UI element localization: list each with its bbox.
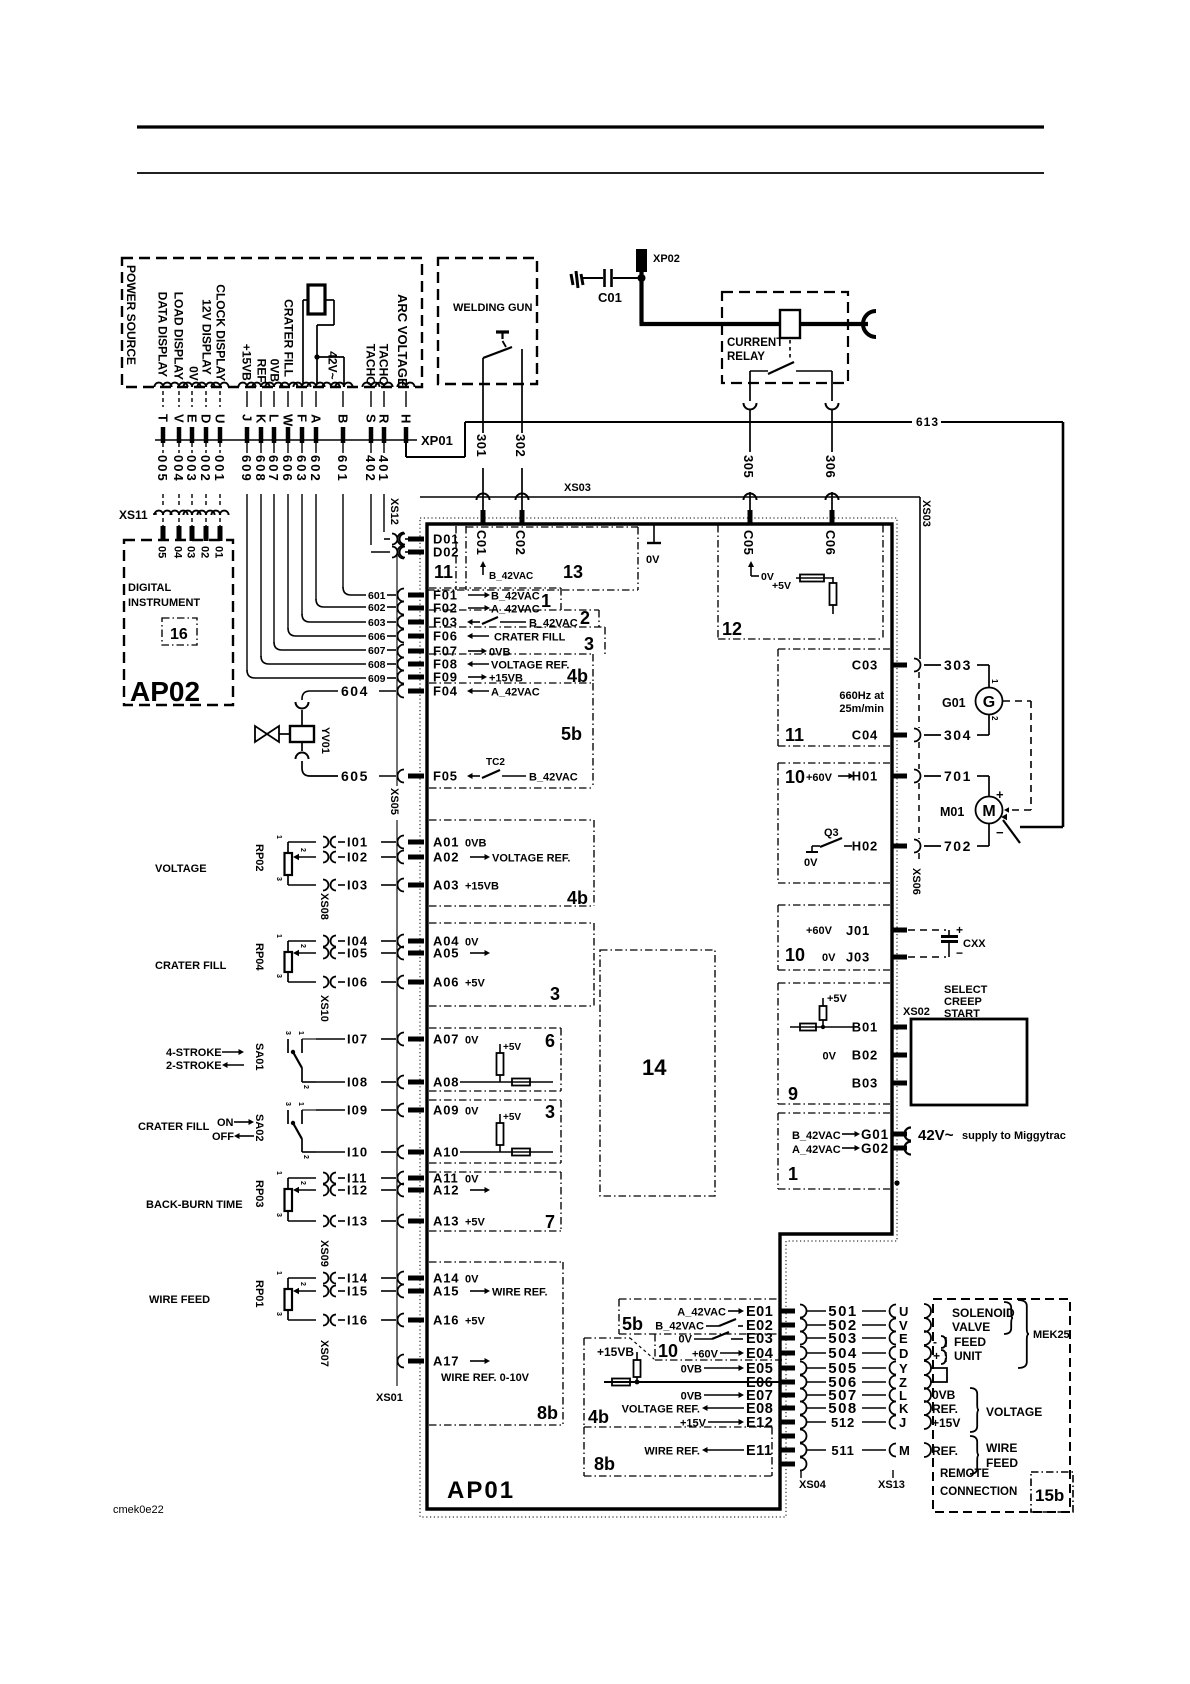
svg-text:609: 609	[368, 673, 386, 685]
svg-text:SA02: SA02	[253, 1114, 265, 1142]
svg-text:1: 1	[275, 1171, 282, 1175]
svg-text:S: S	[364, 414, 379, 423]
svg-text:CREEP: CREEP	[944, 996, 982, 1008]
svg-text:A10: A10	[433, 1145, 459, 1160]
svg-text:1: 1	[275, 1271, 282, 1275]
svg-text:301: 301	[474, 434, 489, 457]
svg-text:I05: I05	[347, 946, 368, 961]
svg-text:RP02: RP02	[253, 844, 265, 872]
svg-text:F06: F06	[433, 629, 458, 644]
svg-text:XP01: XP01	[421, 433, 453, 448]
svg-text:XS03: XS03	[920, 500, 932, 527]
svg-text:2-STROKE: 2-STROKE	[166, 1060, 222, 1072]
svg-text:VOLTAGE: VOLTAGE	[155, 863, 207, 875]
svg-text:G01: G01	[861, 1127, 889, 1142]
svg-text:A_42VAC: A_42VAC	[677, 1307, 726, 1319]
svg-text:B_42VAC: B_42VAC	[655, 1321, 704, 1333]
svg-text:A13: A13	[433, 1214, 459, 1229]
svg-text:A05: A05	[433, 946, 459, 961]
svg-text:E12: E12	[746, 1415, 773, 1431]
svg-text:0VB: 0VB	[681, 1364, 702, 1376]
svg-text:I03: I03	[347, 878, 368, 893]
svg-text:3: 3	[275, 877, 282, 881]
svg-text:3: 3	[284, 1031, 291, 1035]
svg-text:A15: A15	[433, 1284, 459, 1299]
svg-text:25m/min: 25m/min	[839, 703, 884, 715]
svg-text:POWER SOURCE: POWER SOURCE	[124, 265, 138, 365]
svg-text:AP02: AP02	[130, 676, 200, 707]
svg-text:D: D	[199, 414, 214, 423]
svg-text:10: 10	[785, 767, 805, 787]
svg-text:C05: C05	[741, 530, 756, 555]
svg-text:CXX: CXX	[963, 938, 986, 950]
svg-text:E: E	[899, 1331, 908, 1346]
svg-text:+5V: +5V	[772, 580, 791, 592]
svg-text:XS06: XS06	[910, 868, 922, 895]
svg-text:+15VB: +15VB	[465, 881, 499, 893]
svg-text:XS13: XS13	[878, 1479, 905, 1491]
svg-text:0V: 0V	[822, 952, 836, 964]
svg-text:A09: A09	[433, 1103, 459, 1118]
svg-text:701: 701	[944, 768, 972, 784]
svg-text:0VB: 0VB	[681, 1391, 702, 1403]
svg-text:+15VB: +15VB	[240, 344, 254, 381]
svg-text:VOLTAGE REF.: VOLTAGE REF.	[491, 660, 569, 672]
svg-text:0V: 0V	[187, 366, 201, 381]
svg-text:XS02: XS02	[903, 1006, 930, 1018]
svg-text:15b: 15b	[1035, 1486, 1064, 1505]
svg-text:1: 1	[788, 1164, 798, 1184]
svg-text:4b: 4b	[588, 1407, 609, 1427]
svg-text:WIRE FEED: WIRE FEED	[149, 1294, 210, 1306]
svg-text:004: 004	[171, 455, 186, 483]
svg-text:12V DISPLAY: 12V DISPLAY	[200, 299, 214, 375]
svg-text:3: 3	[584, 634, 594, 654]
svg-text:+5V: +5V	[465, 978, 486, 990]
svg-text:supply to Miggytrac: supply to Miggytrac	[962, 1130, 1066, 1142]
svg-text:A08: A08	[433, 1075, 459, 1090]
svg-text:XS03: XS03	[564, 482, 591, 494]
svg-text:F09: F09	[433, 670, 458, 685]
svg-text:0V: 0V	[465, 937, 479, 949]
svg-text:I15: I15	[347, 1284, 368, 1299]
svg-text:M: M	[899, 1443, 910, 1458]
svg-text:0VB: 0VB	[268, 359, 282, 383]
svg-text:10: 10	[658, 1341, 678, 1361]
svg-text:0V: 0V	[465, 1174, 479, 1186]
svg-text:AP01: AP01	[447, 1477, 515, 1504]
svg-text:UNIT: UNIT	[954, 1349, 983, 1363]
svg-text:0V: 0V	[646, 554, 660, 566]
svg-text:0VB: 0VB	[465, 838, 486, 850]
svg-text:R: R	[377, 414, 392, 424]
svg-text:YV01: YV01	[319, 727, 331, 754]
svg-text:8b: 8b	[594, 1454, 615, 1474]
svg-text:A16: A16	[433, 1313, 459, 1328]
svg-text:CONNECTION: CONNECTION	[940, 1486, 1017, 1498]
svg-text:D02: D02	[433, 545, 459, 560]
svg-text:511: 511	[831, 1443, 854, 1458]
svg-text:1: 1	[275, 835, 282, 839]
svg-text:FEED: FEED	[986, 1456, 1018, 1470]
svg-text:G02: G02	[861, 1141, 889, 1156]
svg-text:I01: I01	[347, 835, 368, 850]
svg-text:03: 03	[185, 546, 197, 558]
svg-text:A02: A02	[433, 850, 459, 865]
svg-text:+: +	[956, 923, 963, 937]
svg-text:−: −	[996, 825, 1004, 840]
svg-text:M01: M01	[940, 805, 964, 819]
svg-text:F: F	[295, 414, 310, 422]
svg-text:1: 1	[541, 591, 551, 611]
svg-text:+5V: +5V	[465, 1217, 486, 1229]
svg-text:4-STROKE: 4-STROKE	[166, 1047, 222, 1059]
svg-text:I02: I02	[347, 850, 368, 865]
svg-text:J03: J03	[846, 950, 870, 965]
svg-text:0V: 0V	[679, 1334, 693, 1346]
svg-text:2: 2	[299, 944, 306, 948]
svg-text:B_42VAC: B_42VAC	[491, 591, 540, 603]
svg-text:601: 601	[368, 590, 386, 602]
svg-text:WELDING GUN: WELDING GUN	[453, 302, 532, 314]
svg-text:A_42VAC: A_42VAC	[792, 1144, 841, 1156]
svg-text:10: 10	[785, 945, 805, 965]
svg-text:F05: F05	[433, 769, 458, 784]
svg-text:9: 9	[788, 1084, 798, 1104]
svg-text:A07: A07	[433, 1032, 459, 1047]
svg-text:607: 607	[266, 455, 281, 483]
svg-text:WIRE: WIRE	[986, 1441, 1017, 1455]
svg-text:XS11: XS11	[119, 508, 148, 522]
svg-text:H02: H02	[852, 839, 878, 854]
svg-text:603: 603	[294, 455, 309, 483]
svg-text:REF: REF	[255, 359, 269, 383]
svg-text:2: 2	[580, 608, 590, 628]
svg-text:A03: A03	[433, 878, 459, 893]
svg-text:VOLTAGE REF.: VOLTAGE REF.	[622, 1404, 700, 1416]
svg-text:MEK25: MEK25	[1033, 1329, 1070, 1341]
svg-text:I07: I07	[347, 1032, 368, 1047]
svg-text:607: 607	[368, 645, 386, 657]
svg-text:W: W	[281, 414, 296, 427]
svg-text:1: 1	[297, 1031, 304, 1035]
svg-text:3: 3	[275, 1213, 282, 1217]
svg-text:H01: H01	[852, 769, 878, 784]
svg-text:I12: I12	[347, 1183, 368, 1198]
svg-text:B_42VAC: B_42VAC	[489, 571, 533, 582]
svg-text:0VB: 0VB	[932, 1388, 956, 1402]
svg-text:+5V: +5V	[827, 993, 848, 1005]
svg-text:SOLENOID: SOLENOID	[952, 1306, 1015, 1320]
svg-text:C01: C01	[474, 530, 489, 555]
svg-text:H: H	[399, 414, 414, 423]
svg-text:XP02: XP02	[653, 253, 680, 265]
svg-text:+60V: +60V	[692, 1349, 719, 1361]
svg-text:11: 11	[434, 562, 453, 582]
svg-text:12: 12	[722, 619, 742, 639]
svg-text:LOAD DISPLAY: LOAD DISPLAY	[172, 292, 186, 380]
svg-text:A17: A17	[433, 1354, 459, 1369]
svg-text:J: J	[899, 1415, 906, 1430]
svg-text:CRATER FILL: CRATER FILL	[494, 632, 566, 644]
svg-text:RP01: RP01	[253, 1280, 265, 1308]
svg-text:VOLTAGE REF.: VOLTAGE REF.	[492, 853, 570, 865]
svg-text:002: 002	[198, 455, 213, 483]
svg-text:DATA DISPLAY: DATA DISPLAY	[156, 292, 170, 377]
svg-text:+60V: +60V	[806, 925, 833, 937]
svg-text:0V: 0V	[804, 857, 818, 869]
svg-text:T: T	[156, 414, 171, 422]
svg-text:RELAY: RELAY	[727, 351, 765, 363]
svg-text:11: 11	[785, 725, 804, 745]
svg-text:XS12: XS12	[388, 498, 400, 525]
svg-text:+60V: +60V	[806, 772, 833, 784]
svg-text:5b: 5b	[561, 724, 582, 744]
svg-text:TACHO: TACHO	[364, 344, 378, 386]
svg-text:2: 2	[299, 1181, 306, 1185]
svg-text:42V~: 42V~	[918, 1127, 954, 1144]
svg-text:K: K	[899, 1401, 909, 1416]
svg-text:601: 601	[335, 455, 350, 483]
svg-text:302: 302	[513, 434, 528, 457]
svg-text:+: +	[996, 787, 1004, 802]
svg-text:01: 01	[213, 546, 225, 558]
svg-text:0V: 0V	[465, 1035, 479, 1047]
svg-text:42V~: 42V~	[326, 351, 340, 379]
svg-text:402: 402	[363, 455, 378, 483]
svg-text:RP04: RP04	[253, 943, 265, 971]
svg-text:602: 602	[308, 455, 323, 483]
svg-text:603: 603	[368, 617, 386, 629]
svg-text:Q3: Q3	[824, 827, 839, 839]
svg-text:B02: B02	[852, 1048, 878, 1063]
svg-text:XS07: XS07	[318, 1340, 330, 1367]
svg-text:0VB: 0VB	[489, 647, 510, 659]
svg-text:0V: 0V	[465, 1106, 479, 1118]
svg-text:606: 606	[368, 631, 386, 643]
svg-text:D: D	[899, 1346, 908, 1361]
svg-text:C06: C06	[823, 530, 838, 555]
svg-text:+5V: +5V	[465, 1316, 486, 1328]
svg-text:Y: Y	[899, 1361, 908, 1376]
svg-text:REMOTE: REMOTE	[940, 1468, 990, 1480]
svg-text:WIRE REF.: WIRE REF.	[644, 1446, 700, 1458]
svg-text:J: J	[240, 414, 255, 421]
svg-text:306: 306	[823, 455, 838, 478]
svg-text:04: 04	[172, 546, 184, 559]
svg-text:1: 1	[275, 934, 282, 938]
svg-text:8b: 8b	[537, 1403, 558, 1423]
svg-text:XS04: XS04	[799, 1479, 827, 1491]
svg-text:606: 606	[280, 455, 295, 483]
svg-text:I09: I09	[347, 1103, 368, 1118]
svg-text:604: 604	[341, 683, 369, 699]
svg-text:A: A	[309, 414, 324, 424]
svg-text:I08: I08	[347, 1075, 368, 1090]
svg-text:005: 005	[155, 455, 170, 483]
svg-text:+15V: +15V	[680, 1418, 707, 1430]
svg-text:ARC VOLTAGE: ARC VOLTAGE	[395, 294, 410, 387]
svg-text:REF.: REF.	[932, 1444, 958, 1458]
svg-text:512: 512	[831, 1415, 855, 1430]
svg-text:B03: B03	[852, 1076, 878, 1091]
svg-text:M: M	[982, 803, 995, 820]
svg-text:TC2: TC2	[486, 757, 505, 768]
svg-text:cmek0e22: cmek0e22	[113, 1504, 164, 1516]
svg-text:609: 609	[239, 455, 254, 483]
svg-text:XS10: XS10	[318, 995, 330, 1022]
svg-text:K: K	[254, 414, 269, 424]
svg-text:FEED: FEED	[954, 1335, 986, 1349]
svg-text:WIRE REF.: WIRE REF.	[492, 1287, 548, 1299]
svg-text:02: 02	[199, 546, 211, 558]
svg-text:2: 2	[299, 848, 306, 852]
svg-text:V: V	[172, 414, 187, 423]
svg-text:A06: A06	[433, 975, 459, 990]
svg-text:U: U	[899, 1304, 908, 1319]
svg-text:3: 3	[275, 1312, 282, 1316]
svg-text:CRATER FILL: CRATER FILL	[138, 1121, 210, 1133]
svg-text:304: 304	[944, 727, 972, 743]
svg-text:E11: E11	[746, 1443, 773, 1459]
svg-text:−: −	[956, 946, 963, 960]
svg-text:3: 3	[275, 974, 282, 978]
svg-text:CRATER FILL: CRATER FILL	[282, 299, 296, 377]
svg-text:660Hz at: 660Hz at	[839, 690, 884, 702]
svg-text:WIRE REF. 0-10V: WIRE REF. 0-10V	[441, 1372, 530, 1384]
svg-text:1: 1	[297, 1102, 304, 1106]
svg-text:CURRENT: CURRENT	[727, 337, 783, 349]
svg-text:16: 16	[170, 626, 188, 643]
svg-text:2: 2	[990, 716, 999, 721]
svg-text:401: 401	[376, 455, 391, 483]
svg-text:C03: C03	[852, 658, 878, 673]
svg-text:CRATER FILL: CRATER FILL	[155, 960, 227, 972]
svg-text:A01: A01	[433, 835, 459, 850]
svg-text:BACK-BURN TIME: BACK-BURN TIME	[146, 1199, 243, 1211]
svg-text:7: 7	[545, 1212, 555, 1232]
svg-text:I16: I16	[347, 1313, 368, 1328]
svg-text:14: 14	[642, 1055, 667, 1080]
svg-text:XS08: XS08	[318, 893, 330, 920]
svg-text:+5V: +5V	[503, 1112, 521, 1123]
svg-text:B: B	[336, 414, 351, 423]
svg-text:U: U	[213, 414, 228, 423]
svg-text:G01: G01	[942, 696, 966, 710]
svg-text:1: 1	[990, 679, 999, 684]
svg-text:C02: C02	[513, 530, 528, 555]
svg-text:+5V: +5V	[503, 1042, 521, 1053]
svg-text:INSTRUMENT: INSTRUMENT	[128, 597, 200, 609]
svg-text:XS05: XS05	[388, 788, 400, 815]
svg-text:F04: F04	[433, 684, 458, 699]
svg-text:I13: I13	[347, 1214, 368, 1229]
svg-text:A_42VAC: A_42VAC	[491, 687, 540, 699]
svg-text:B_42VAC: B_42VAC	[529, 618, 578, 630]
svg-text:C04: C04	[852, 728, 878, 743]
svg-text:001: 001	[212, 455, 227, 483]
svg-text:3: 3	[550, 984, 560, 1004]
svg-text:OFF: OFF	[212, 1131, 234, 1143]
svg-text:J01: J01	[846, 923, 870, 938]
svg-text:4b: 4b	[567, 666, 588, 686]
svg-text:RP03: RP03	[253, 1180, 265, 1208]
svg-text:B_42VAC: B_42VAC	[792, 1130, 841, 1142]
svg-text:2: 2	[302, 1085, 309, 1089]
svg-text:608: 608	[253, 455, 268, 483]
svg-text:SA01: SA01	[253, 1043, 265, 1071]
svg-text:TACHO: TACHO	[377, 344, 391, 386]
svg-text:ON: ON	[217, 1117, 234, 1129]
svg-text:0V: 0V	[465, 1274, 479, 1286]
svg-text:C01: C01	[598, 290, 622, 305]
svg-text:A12: A12	[433, 1183, 459, 1198]
svg-text:B_42VAC: B_42VAC	[529, 772, 578, 784]
svg-text:+15VB: +15VB	[597, 1345, 634, 1359]
svg-text:REF.: REF.	[932, 1402, 958, 1416]
svg-text:G: G	[983, 694, 995, 711]
svg-text:CLOCK DISPLAY: CLOCK DISPLAY	[214, 284, 228, 381]
svg-text:608: 608	[368, 659, 386, 671]
svg-text:4b: 4b	[567, 888, 588, 908]
svg-text:+15V: +15V	[932, 1416, 960, 1430]
svg-text:3: 3	[545, 1102, 555, 1122]
svg-text:303: 303	[944, 657, 972, 673]
svg-text:I06: I06	[347, 975, 368, 990]
svg-text:VALVE: VALVE	[952, 1320, 990, 1334]
svg-text:3: 3	[284, 1102, 291, 1106]
svg-text:702: 702	[944, 838, 972, 854]
svg-text:+: +	[933, 1349, 940, 1363]
svg-text:VOLTAGE: VOLTAGE	[986, 1405, 1042, 1419]
svg-text:13: 13	[563, 562, 583, 582]
svg-text:305: 305	[741, 455, 756, 478]
svg-text:E: E	[185, 414, 200, 423]
svg-text:2: 2	[299, 1282, 306, 1286]
svg-text:2: 2	[302, 1155, 309, 1159]
svg-text:5b: 5b	[622, 1314, 643, 1334]
svg-text:XS01: XS01	[376, 1392, 403, 1404]
svg-text:6: 6	[545, 1031, 555, 1051]
svg-text:F02: F02	[433, 601, 458, 616]
svg-text:SELECT: SELECT	[944, 984, 988, 996]
svg-text:XS09: XS09	[318, 1240, 330, 1267]
svg-text:613: 613	[916, 415, 939, 429]
svg-text:003: 003	[184, 455, 199, 483]
svg-text:0V: 0V	[823, 1051, 837, 1063]
svg-text:L: L	[267, 414, 282, 422]
svg-text:05: 05	[156, 546, 168, 558]
svg-text:602: 602	[368, 602, 386, 614]
svg-text:DIGITAL: DIGITAL	[128, 582, 171, 594]
svg-text:605: 605	[341, 768, 369, 784]
svg-text:I10: I10	[347, 1145, 368, 1160]
